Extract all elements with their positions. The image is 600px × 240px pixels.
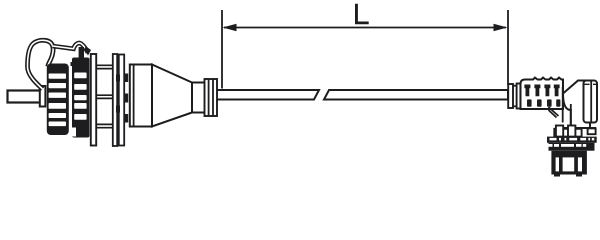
left connector: body bottom edges — [96, 124, 113, 127]
right connector: gland nut bar 1 — [508, 84, 513, 108]
right connector: elbow left wall — [562, 87, 564, 123]
right connector: elbow bottom edge — [559, 127, 596, 129]
right connector: elbow inner corner fillet — [549, 107, 559, 118]
left connector: backshell cylinder — [192, 83, 206, 113]
dimension line L — [224, 27, 506, 29]
dimension extension line right — [507, 10, 509, 85]
right connector: knurled ring — [549, 143, 595, 151]
left connector: knurled coupling ring — [72, 58, 90, 138]
right connector: stem block — [554, 129, 581, 137]
right connector: boot studs row 1 — [524, 85, 559, 97]
right connector: elbow block tick — [585, 83, 597, 85]
left connector: bayonet tab 3 — [124, 114, 128, 123]
left connector: bayonet collar plate 1 — [113, 54, 117, 146]
right connector: corrugated strain relief boot — [521, 78, 564, 109]
left connector: pin end cap — [40, 86, 46, 107]
right connector: gland nut bar 2 — [517, 84, 521, 109]
left connector: wire bail loop — [27, 40, 53, 89]
left connector: body middle edges — [96, 95, 113, 98]
left connector: bayonet tab 1 — [124, 74, 128, 83]
right connector: gland gap lines — [513, 85, 517, 87]
left connector: collar pin 1 — [116, 75, 120, 82]
right connector: elbow right block — [584, 81, 598, 123]
left connector: conical backshell — [152, 65, 192, 127]
right connector: flange ring — [547, 137, 597, 143]
dimension arrow left — [223, 24, 237, 32]
wire: cable segment 1 (backshell to break) — [217, 90, 319, 100]
left connector: bail step piece — [71, 58, 81, 66]
left connector: bayonet tab 2 — [124, 94, 128, 103]
left connector: stowage pin — [8, 91, 41, 103]
dimension extension line left — [221, 10, 223, 89]
right connector: stem post 1 — [556, 126, 563, 137]
right connector: elbow stem wall line — [570, 104, 572, 128]
right connector: side tab — [588, 128, 596, 134]
left connector: mounting flange — [91, 54, 96, 146]
right connector: boot studs row 2 — [527, 99, 560, 106]
right connector: elbow housing — [563, 81, 590, 129]
left connector: bail post on cap — [79, 47, 84, 58]
left connector: rear body barrel — [130, 65, 152, 127]
dimension arrow right — [494, 24, 508, 32]
left connector: bail end point — [85, 46, 92, 56]
left connector: body top edges — [96, 65, 113, 68]
left connector: bail hook wire — [53, 43, 88, 53]
left connector: cable gland rings — [205, 79, 218, 116]
wire: cable segment 2 (break to right connector) — [324, 90, 508, 100]
left connector: collar pin 2 — [116, 106, 120, 113]
right connector: plug shell — [551, 151, 587, 175]
label L — [355, 4, 369, 25]
right connector: stem post 2 — [568, 126, 575, 137]
left connector: bayonet collar plate 2 — [119, 55, 124, 146]
left connector: knurled protective cap — [47, 64, 69, 136]
right connector: shell feet — [554, 175, 560, 177]
